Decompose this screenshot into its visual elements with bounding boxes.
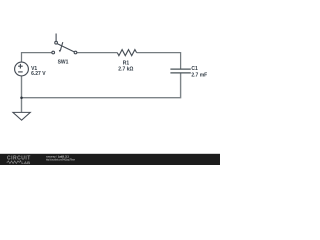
svg-text:2.7 kΩ: 2.7 kΩ — [118, 66, 133, 72]
svg-text:2.7 mF: 2.7 mF — [191, 72, 207, 78]
svg-text:http://circuitlab.com/5462zgu7: http://circuitlab.com/5462zgu79lmw — [46, 157, 75, 161]
svg-text:LAB: LAB — [21, 160, 30, 165]
svg-text:SW1: SW1 — [58, 60, 69, 66]
svg-text:6.27 V: 6.27 V — [31, 71, 46, 77]
svg-text:C1: C1 — [191, 66, 198, 72]
